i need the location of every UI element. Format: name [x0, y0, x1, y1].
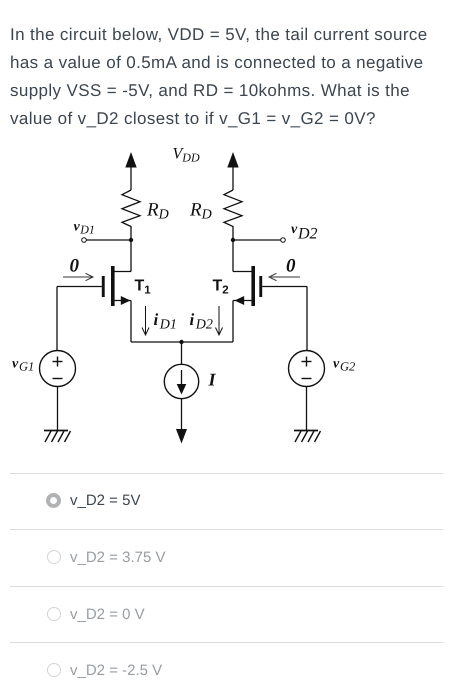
arrow iD2	[216, 306, 223, 335]
current source I	[164, 364, 198, 398]
terminal vD2 circle	[281, 238, 286, 243]
wire drain left vertical	[130, 240, 132, 272]
wire gate right	[262, 286, 307, 288]
source vG2	[289, 351, 325, 387]
svg-text:VDD: VDD	[173, 146, 200, 165]
arrow iD1	[142, 306, 149, 335]
wire vG1 to ground	[57, 387, 59, 431]
power VDD arrow left	[125, 152, 136, 168]
terminal vD1 circle	[82, 238, 87, 243]
transistor Q T2	[233, 266, 262, 306]
wire vD2 to drain node	[233, 239, 281, 241]
svg-text:D2: D2	[297, 226, 318, 243]
svg-text:RD: RD	[146, 200, 169, 223]
resistor RD left	[122, 190, 140, 240]
wire vG1 vertical	[56, 287, 58, 351]
svg-text:vG1: vG1	[12, 357, 34, 374]
svg-text:T2: T2	[213, 278, 229, 297]
power VDD arrow right	[227, 152, 238, 168]
svg-text:I: I	[208, 370, 217, 390]
wire vD1 to drain node	[86, 239, 131, 241]
node drain left	[129, 238, 133, 242]
wire vG2 vertical	[306, 287, 308, 351]
node tail	[179, 340, 183, 344]
source vG1	[40, 351, 76, 387]
wire source right vertical	[232, 301, 234, 343]
resistor RD right	[224, 190, 242, 240]
svg-text:0: 0	[70, 256, 80, 277]
svg-text:iD1: iD1	[154, 310, 177, 333]
svg-text:RD: RD	[189, 200, 212, 223]
arrow gate current right	[269, 273, 300, 280]
wire tail to current source	[181, 342, 183, 364]
node drain right	[231, 238, 235, 242]
ground right	[294, 431, 321, 443]
wire vG2 to ground	[306, 387, 308, 431]
svg-text:vD1: vD1	[74, 220, 95, 237]
wire gate left	[57, 286, 102, 288]
options	[10, 473, 443, 474]
svg-text:iD2: iD2	[190, 310, 213, 333]
svg-text:vG2: vG2	[333, 357, 355, 374]
ground left	[44, 431, 71, 443]
transistor Q T1	[102, 266, 131, 306]
wire source bus	[131, 341, 233, 343]
svg-text:v: v	[291, 222, 298, 237]
svg-text:0: 0	[286, 256, 296, 277]
wire current source to VSS	[181, 399, 183, 430]
wire VDD lead right	[232, 166, 234, 190]
wire VDD lead left	[130, 166, 132, 190]
svg-text:T1: T1	[135, 278, 152, 297]
wire drain right vertical	[232, 240, 234, 272]
wire source left vertical	[130, 301, 132, 343]
power VSS arrow down	[176, 429, 187, 444]
arrow gate current left	[63, 273, 93, 280]
